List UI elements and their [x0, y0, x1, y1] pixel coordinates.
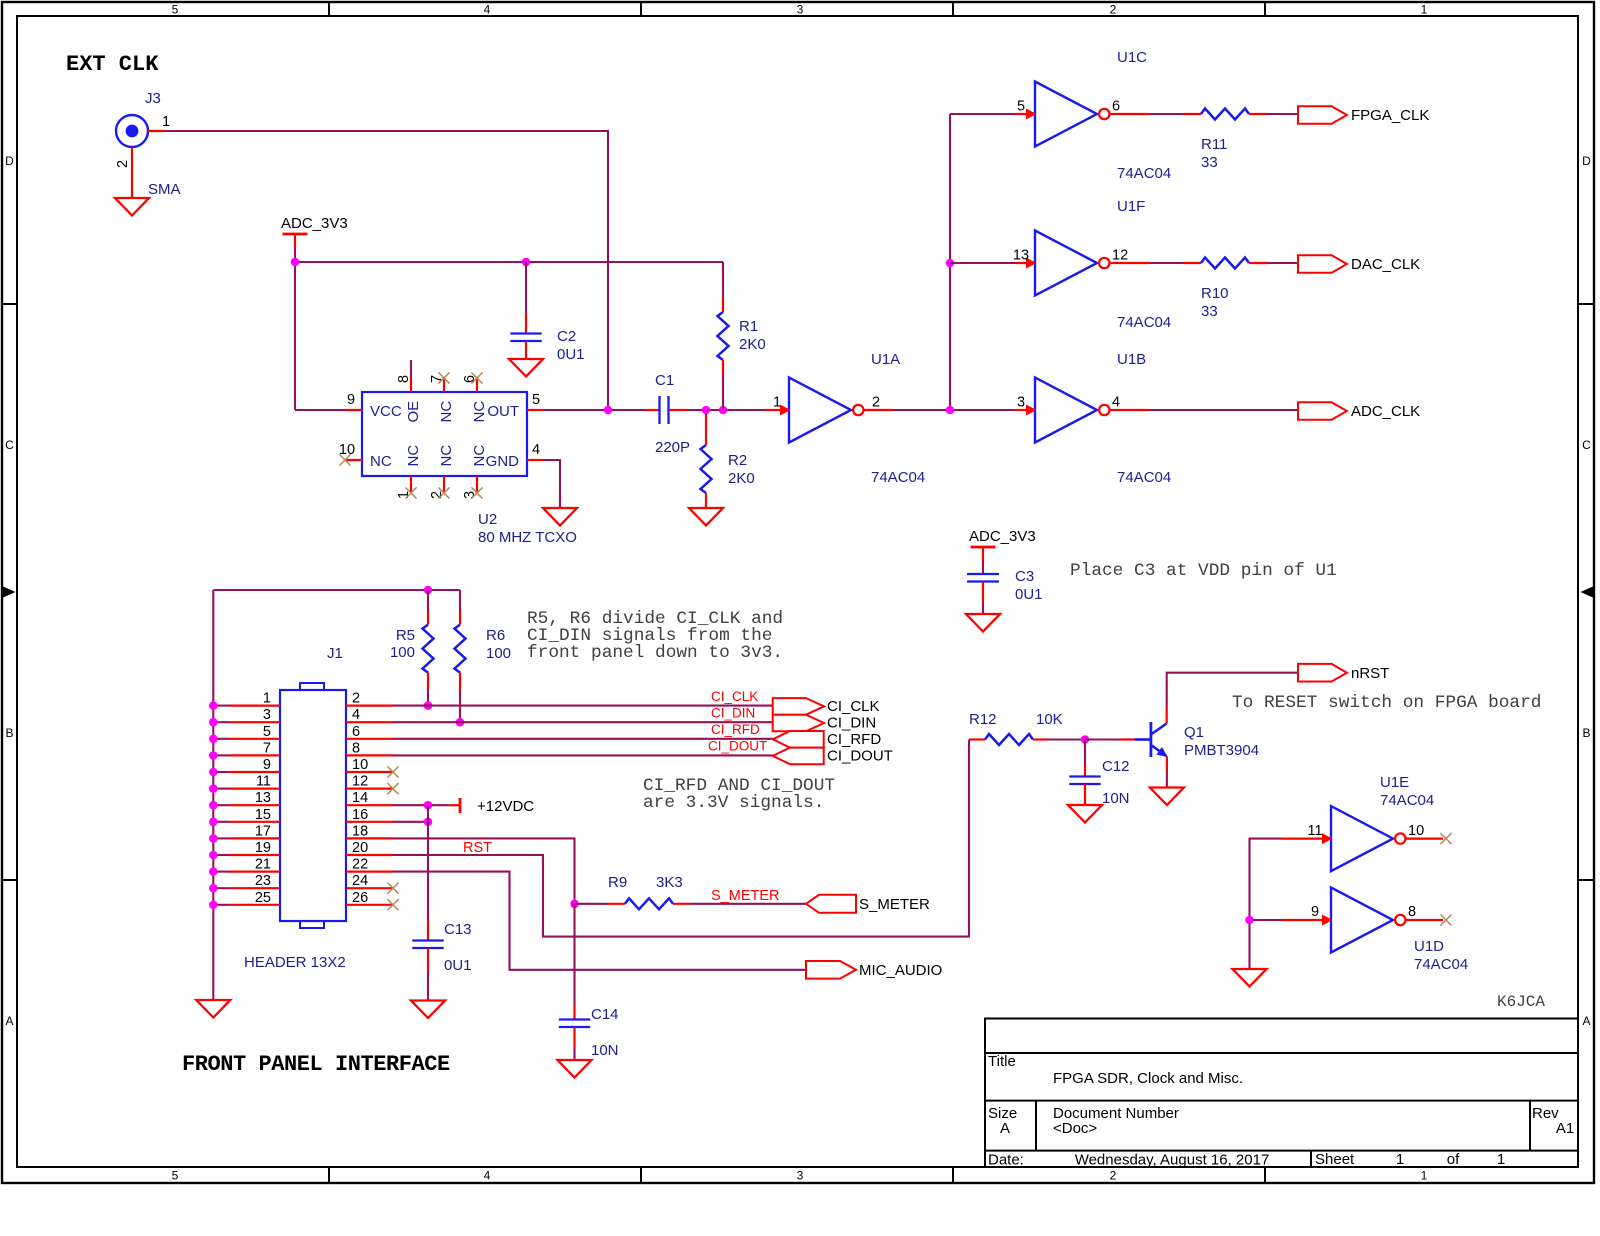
wire pin8 to CI_DOUT — [393, 754, 773, 756]
port nRST — [1298, 664, 1347, 682]
capacitor C13 — [427, 920, 429, 940]
J1 pin 5 — [229, 738, 280, 740]
port ADC_CLK — [1298, 402, 1347, 420]
svg-text:J1: J1 — [327, 645, 343, 662]
U2 pin 7 — [443, 378, 445, 392]
J1 pin 18 — [346, 837, 393, 839]
U2 pin 9 (VCC) — [345, 409, 362, 411]
svg-text:1: 1 — [162, 114, 170, 130]
svg-text:4: 4 — [484, 1169, 491, 1183]
svg-text:2: 2 — [1110, 3, 1117, 17]
J1 pin 23 — [229, 887, 280, 889]
svg-text:VCC: VCC — [370, 403, 402, 420]
U2 pin 8 (OE) stub — [410, 378, 412, 392]
J1 left ground bus wire — [212, 590, 214, 1000]
svg-text:74AC04: 74AC04 — [1117, 469, 1171, 486]
svg-text:B: B — [1582, 726, 1590, 740]
svg-text:2K0: 2K0 — [728, 470, 755, 487]
U1F output pin 12 — [1110, 262, 1151, 264]
svg-text:U1E: U1E — [1380, 774, 1409, 791]
node junction R5 top — [424, 586, 433, 595]
U1B output pin 4 — [1110, 409, 1151, 411]
power symbol +12VDC — [449, 804, 460, 806]
svg-text:C: C — [5, 438, 14, 452]
svg-text:25: 25 — [255, 890, 271, 906]
port DAC_CLK — [1298, 255, 1347, 273]
svg-text:C: C — [1582, 438, 1591, 452]
title block — [985, 1019, 1578, 1168]
J1 pin 14 — [346, 804, 393, 806]
svg-text:5: 5 — [1017, 99, 1025, 115]
wire U1F output — [1150, 262, 1183, 264]
svg-text:18: 18 — [352, 823, 368, 839]
svg-text:CI_DOUT: CI_DOUT — [827, 748, 893, 765]
wire R10 to port — [1267, 262, 1298, 264]
J1 pin 21 — [229, 870, 280, 872]
svg-text:Date:: Date: — [988, 1152, 1024, 1169]
svg-text:10: 10 — [1408, 823, 1424, 839]
node OUT junction with J3 wire — [604, 406, 613, 415]
ground at J1 bus — [196, 1000, 230, 1018]
svg-text:13: 13 — [255, 790, 271, 806]
svg-text:HEADER 13X2: HEADER 13X2 — [244, 954, 346, 971]
wire U1E/U1D input bus — [1250, 839, 1283, 969]
svg-text:33: 33 — [1201, 154, 1218, 171]
svg-text:0U1: 0U1 — [1015, 586, 1043, 603]
wire pin16 to C13 — [393, 821, 428, 823]
ground at C14 — [558, 1060, 592, 1078]
svg-text:U1B: U1B — [1117, 351, 1146, 368]
node junction U1B input — [946, 406, 955, 415]
svg-text:FPGA_CLK: FPGA_CLK — [1351, 107, 1429, 124]
connector J3 (SMA) — [116, 115, 148, 147]
node ADC_3V3 junction at x295 — [291, 258, 300, 267]
J1 pin 25 — [229, 904, 280, 906]
svg-text:<Doc>: <Doc> — [1053, 1120, 1097, 1137]
U1A output pin 2 — [864, 409, 894, 411]
ground at J3 — [115, 198, 149, 216]
U1C input pin 5 — [1015, 113, 1026, 115]
svg-text:5: 5 — [263, 724, 271, 740]
J3 pin 2 — [131, 147, 133, 198]
svg-text:ADC_3V3: ADC_3V3 — [969, 528, 1036, 545]
ground at C13 — [411, 1001, 445, 1019]
svg-text:CI_CLK: CI_CLK — [827, 698, 880, 715]
svg-text:19: 19 — [255, 840, 271, 856]
J1 pin 2 — [346, 704, 393, 706]
svg-text:74AC04: 74AC04 — [1117, 165, 1171, 182]
node junction S_METER — [570, 900, 579, 909]
ground at Q1 — [1150, 788, 1184, 806]
J1 pin 17 — [229, 837, 280, 839]
J1 pin 15 — [229, 821, 280, 823]
J1 pin 19 — [229, 854, 280, 856]
J1 pin 24 — [346, 887, 393, 889]
svg-text:C14: C14 — [591, 1006, 619, 1023]
J1 pin 4 — [346, 721, 393, 723]
svg-text:OE: OE — [405, 401, 422, 423]
J1 pin 12 — [346, 787, 393, 789]
capacitor C14 — [573, 1005, 575, 1019]
svg-text:6: 6 — [352, 724, 360, 740]
ground at C3 — [966, 614, 1000, 632]
J1 pin 9 — [229, 771, 280, 773]
svg-text:ADC_3V3: ADC_3V3 — [281, 215, 348, 232]
capacitor C2 — [525, 262, 527, 313]
resistor R6 — [459, 590, 461, 610]
svg-text:DAC_CLK: DAC_CLK — [1351, 256, 1420, 273]
node ADC_3V3 junction at x526 — [522, 258, 531, 267]
transistor Q1 — [1119, 738, 1135, 740]
svg-text:PMBT3904: PMBT3904 — [1184, 742, 1259, 759]
J1 pin 22 — [346, 870, 393, 872]
header J1 body — [280, 690, 346, 921]
svg-text:OUT: OUT — [487, 403, 519, 420]
inverter U1A — [789, 378, 851, 443]
wire Q1 collector to nRST — [1166, 706, 1168, 724]
svg-text:5: 5 — [172, 3, 179, 17]
svg-text:RST: RST — [463, 840, 492, 856]
svg-text:NC: NC — [370, 453, 392, 470]
J1 pin 1 — [229, 704, 280, 706]
port CI_DIN — [773, 715, 824, 732]
svg-text:of: of — [1447, 1151, 1460, 1168]
svg-text:U2: U2 — [478, 511, 497, 528]
svg-text:are 3.3V signals.: are 3.3V signals. — [643, 793, 824, 813]
J3 pin 1 — [148, 130, 165, 132]
J1 pin 26 — [346, 904, 393, 906]
U1A input pin 1 — [765, 409, 781, 411]
svg-text:8: 8 — [1408, 904, 1416, 920]
U2 pin 5 (OUT) — [527, 409, 543, 411]
svg-text:21: 21 — [255, 857, 271, 873]
resistor R10 — [1201, 258, 1249, 269]
svg-text:nRST: nRST — [1351, 665, 1389, 682]
svg-text:12: 12 — [352, 774, 368, 790]
svg-text:C12: C12 — [1102, 758, 1130, 775]
svg-text:1: 1 — [1396, 1151, 1404, 1168]
node junction R1 — [719, 406, 728, 415]
wire pin20 RST to R12 — [393, 740, 969, 937]
svg-text:R11: R11 — [1201, 136, 1227, 153]
J1 pin 7 — [229, 754, 280, 756]
svg-text:4: 4 — [532, 442, 540, 458]
svg-text:R10: R10 — [1201, 285, 1229, 302]
J1 pin 16 — [346, 821, 393, 823]
svg-text:NC: NC — [405, 445, 422, 467]
resistor R9 — [575, 903, 609, 905]
capacitor C3 — [982, 561, 984, 573]
svg-text:1: 1 — [1421, 3, 1428, 17]
svg-text:B: B — [5, 726, 13, 740]
port MIC_AUDIO — [806, 961, 856, 979]
svg-text:U1A: U1A — [871, 351, 900, 368]
svg-text:SMA: SMA — [148, 181, 181, 198]
svg-text:R6: R6 — [486, 627, 505, 644]
svg-text:74AC04: 74AC04 — [871, 469, 925, 486]
svg-text:A: A — [5, 1014, 13, 1028]
U1C output pin 6 — [1110, 113, 1151, 115]
svg-text:10N: 10N — [591, 1042, 619, 1059]
wire pin22 to MIC_AUDIO — [393, 872, 806, 970]
svg-text:33: 33 — [1201, 303, 1218, 320]
svg-text:13: 13 — [1013, 248, 1029, 264]
svg-text:EXT CLK: EXT CLK — [66, 52, 159, 77]
svg-text:0U1: 0U1 — [444, 957, 472, 974]
svg-text:6: 6 — [1112, 99, 1120, 115]
svg-text:2K0: 2K0 — [739, 336, 766, 353]
ground at R2 — [689, 508, 723, 526]
svg-text:20: 20 — [352, 840, 368, 856]
svg-text:Sheet: Sheet — [1315, 1151, 1355, 1168]
svg-text:R1: R1 — [739, 318, 758, 335]
wire R5/R6 top bus — [213, 589, 460, 591]
inverter U1E — [1331, 806, 1393, 871]
svg-text:100: 100 — [390, 644, 415, 661]
svg-text:7: 7 — [263, 740, 271, 756]
U1E output pin 10 — [1406, 837, 1444, 839]
svg-text:C2: C2 — [557, 328, 576, 345]
svg-text:1: 1 — [1421, 1169, 1428, 1183]
svg-text:24: 24 — [352, 873, 368, 889]
svg-text:R12: R12 — [969, 711, 997, 728]
svg-text:R2: R2 — [728, 452, 747, 469]
svg-text:22: 22 — [352, 857, 368, 873]
U1D output pin 8 — [1406, 919, 1444, 921]
resistor R1 — [722, 262, 724, 297]
J1 pin 11 — [229, 787, 280, 789]
svg-text:5: 5 — [172, 1169, 179, 1183]
svg-text:3: 3 — [1017, 395, 1025, 411]
node junction R5 bottom — [424, 701, 433, 710]
J1 pin 3 — [229, 721, 280, 723]
svg-text:220P: 220P — [655, 439, 690, 456]
wire ADC_3V3 bus — [294, 248, 296, 262]
wire U1C output — [1150, 113, 1183, 115]
svg-text:8: 8 — [396, 375, 412, 383]
svg-text:C13: C13 — [444, 921, 472, 938]
ground at U2 pin 4 — [543, 508, 577, 526]
svg-text:CI_RFD: CI_RFD — [827, 731, 881, 748]
svg-text:ADC_CLK: ADC_CLK — [1351, 403, 1420, 420]
wire pin4 to CI_DIN — [393, 721, 773, 723]
svg-text:1: 1 — [1497, 1151, 1505, 1168]
U2 pin 2 — [443, 476, 445, 493]
oscillator U2 body — [362, 392, 527, 476]
node junction C12/base — [1081, 735, 1090, 744]
wire R9 to S_METER port — [690, 903, 806, 905]
svg-text:15: 15 — [255, 807, 271, 823]
svg-text:D: D — [1582, 154, 1591, 168]
svg-text:A1: A1 — [1556, 1120, 1574, 1137]
svg-text:MIC_AUDIO: MIC_AUDIO — [859, 962, 942, 979]
svg-text:10K: 10K — [1036, 711, 1063, 728]
wire U1B output to port — [1150, 409, 1298, 411]
wire R12 to Q1 base — [1048, 738, 1085, 740]
svg-text:16: 16 — [352, 807, 368, 823]
wire OUT net — [543, 409, 645, 411]
svg-text:2: 2 — [115, 160, 131, 168]
svg-text:NC: NC — [438, 445, 455, 467]
wire pin14 to +12VDC — [393, 804, 449, 806]
wire R11 to port — [1267, 113, 1298, 115]
node junction R6 bottom — [456, 718, 465, 727]
sheet mid-edge arrows — [3, 587, 16, 598]
ground at C12 — [1068, 805, 1102, 823]
svg-text:26: 26 — [352, 890, 368, 906]
port FPGA_CLK — [1298, 106, 1347, 124]
resistor R12 — [969, 738, 985, 740]
svg-text:11: 11 — [256, 774, 271, 790]
svg-text:A: A — [1000, 1120, 1010, 1137]
inverter U1C — [1035, 82, 1097, 147]
svg-text:74AC04: 74AC04 — [1414, 956, 1468, 973]
svg-text:C1: C1 — [655, 372, 674, 389]
U2 pin 1 — [410, 476, 412, 493]
U2 pin 3 — [476, 476, 478, 493]
svg-text:C3: C3 — [1015, 568, 1034, 585]
J1 pin 13 — [229, 804, 280, 806]
wire Q1 emitter to ground — [1166, 757, 1168, 772]
svg-text:J3: J3 — [145, 90, 161, 107]
svg-text:FRONT PANEL INTERFACE: FRONT PANEL INTERFACE — [182, 1052, 450, 1077]
svg-text:R5: R5 — [396, 627, 415, 644]
resistor R5 — [427, 590, 429, 610]
node junction R2 — [702, 406, 711, 415]
U2 pin 10 (NC) — [345, 459, 362, 461]
wire pin2 to CI_CLK — [393, 705, 773, 707]
svg-text:+12VDC: +12VDC — [477, 798, 534, 815]
svg-text:14: 14 — [352, 790, 368, 806]
svg-text:CI_DIN: CI_DIN — [711, 706, 755, 721]
port S_METER — [806, 895, 856, 913]
svg-text:GND: GND — [486, 453, 520, 470]
svg-text:NC: NC — [438, 401, 455, 423]
svg-text:3: 3 — [797, 3, 804, 17]
svg-text:10N: 10N — [1102, 790, 1130, 807]
svg-text:2: 2 — [352, 691, 360, 707]
svg-text:NC: NC — [471, 401, 488, 423]
capacitor C1 — [645, 409, 659, 411]
svg-text:front panel down to 3v3.: front panel down to 3v3. — [527, 643, 783, 663]
svg-text:4: 4 — [484, 3, 491, 17]
svg-text:74AC04: 74AC04 — [1117, 314, 1171, 331]
svg-text:S_METER: S_METER — [859, 896, 930, 913]
svg-text:9: 9 — [1311, 904, 1319, 920]
svg-text:12: 12 — [1112, 248, 1128, 264]
U1D input pin 9 — [1282, 919, 1322, 921]
svg-text:3K3: 3K3 — [656, 874, 683, 891]
svg-text:2: 2 — [1110, 1169, 1117, 1183]
svg-text:11: 11 — [1307, 823, 1322, 839]
svg-text:2: 2 — [872, 395, 880, 411]
svg-text:Title: Title — [988, 1053, 1016, 1070]
svg-text:0U1: 0U1 — [557, 346, 585, 363]
svg-text:8: 8 — [352, 740, 360, 756]
svg-text:To RESET switch on FPGA board: To RESET switch on FPGA board — [1232, 693, 1541, 713]
wire pin6 to CI_RFD — [393, 738, 773, 740]
svg-text:S_METER: S_METER — [711, 888, 780, 904]
svg-text:4: 4 — [1112, 395, 1120, 411]
svg-text:CI_CLK: CI_CLK — [711, 689, 758, 704]
svg-text:R9: R9 — [608, 874, 627, 891]
J1 pin 10 — [346, 771, 393, 773]
U2 pin 4 (GND) — [527, 459, 543, 461]
svg-text:9: 9 — [263, 757, 271, 773]
node junction U1F input — [946, 259, 955, 268]
svg-text:U1F: U1F — [1117, 198, 1145, 215]
inverter U1B — [1035, 378, 1097, 443]
svg-text:23: 23 — [255, 873, 271, 889]
inverter U1F — [1035, 231, 1097, 296]
svg-text:U1C: U1C — [1117, 49, 1147, 66]
svg-text:D: D — [5, 154, 14, 168]
U2 pin 6 — [476, 378, 478, 392]
svg-text:80 MHZ TCXO: 80 MHZ TCXO — [478, 529, 577, 546]
svg-text:9: 9 — [347, 392, 355, 408]
svg-text:3: 3 — [797, 1169, 804, 1183]
svg-text:Place C3 at VDD pin of U1: Place C3 at VDD pin of U1 — [1070, 561, 1337, 581]
port CI_DOUT — [773, 748, 824, 765]
svg-text:1: 1 — [773, 395, 781, 411]
port CI_RFD — [773, 731, 824, 748]
wire U2 GND to ground — [543, 460, 560, 508]
resistor R2 — [705, 414, 707, 445]
svg-text:10: 10 — [352, 757, 368, 773]
svg-text:CI_DIN: CI_DIN — [827, 715, 876, 732]
U1F input pin 13 — [1015, 262, 1026, 264]
svg-text:K6JCA: K6JCA — [1497, 993, 1545, 1011]
svg-text:A: A — [1582, 1014, 1590, 1028]
svg-text:1: 1 — [263, 691, 271, 707]
port CI_CLK — [773, 698, 824, 715]
wire J3 pin1 to OUT node — [165, 131, 608, 410]
U1E input pin 11 — [1282, 837, 1322, 839]
svg-text:3: 3 — [263, 707, 271, 723]
wire S_METER node to C14 — [573, 904, 575, 1005]
inverter U1D — [1331, 888, 1393, 953]
svg-text:CI_DOUT: CI_DOUT — [708, 739, 767, 754]
resistor R11 — [1201, 109, 1249, 120]
J1 pin 6 — [346, 738, 393, 740]
node junction U1D input — [1245, 916, 1254, 925]
wire C1 to U1A input — [687, 409, 706, 411]
ground at C2 — [509, 359, 543, 377]
svg-text:FPGA SDR, Clock and Misc.: FPGA SDR, Clock and Misc. — [1053, 1070, 1243, 1087]
svg-text:100: 100 — [486, 645, 511, 662]
svg-text:Wednesday, August 16, 2017: Wednesday, August 16, 2017 — [1075, 1152, 1270, 1169]
wire U1A out to inverter bank — [893, 409, 1015, 411]
svg-text:U1D: U1D — [1414, 938, 1444, 955]
svg-text:5: 5 — [532, 392, 540, 408]
svg-text:CI_RFD: CI_RFD — [711, 722, 760, 737]
svg-text:17: 17 — [255, 823, 271, 839]
U1B input pin 3 — [1015, 409, 1026, 411]
svg-text:4: 4 — [352, 707, 360, 723]
capacitor C12 — [1084, 740, 1086, 765]
svg-text:74AC04: 74AC04 — [1380, 792, 1434, 809]
svg-text:Q1: Q1 — [1184, 724, 1204, 741]
wire pin18 to S_METER node — [393, 838, 575, 903]
ground at U1E/U1D bus — [1233, 969, 1267, 987]
J1 pin 20 — [346, 854, 393, 856]
J1 pin 8 — [346, 754, 393, 756]
